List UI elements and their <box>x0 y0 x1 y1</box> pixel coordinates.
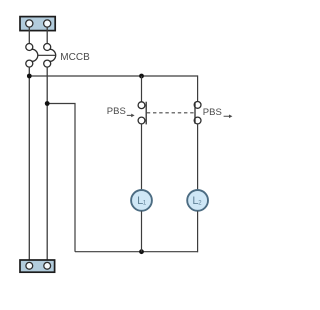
svg-text:PBS: PBS <box>203 107 222 118</box>
label PBS1 arrow <box>127 114 135 118</box>
mechanical interlock dashed link <box>147 112 195 114</box>
wire lamp L1 to bottom rail <box>141 211 143 251</box>
lamp L2 <box>187 190 208 211</box>
wire PBS1 to lamp L1 <box>141 124 143 189</box>
wire pole1 down to bottom block <box>28 67 30 262</box>
breaker MCCB pole1 arc blade <box>32 49 38 61</box>
wire TB1-a to MCCB pole1 <box>28 27 30 43</box>
junction top rail / branch L1 <box>139 74 144 79</box>
junction pole2 / return rail <box>45 101 50 106</box>
breaker MCCB pole1 bottom contact <box>26 60 33 67</box>
breaker MCCB pole2 top contact <box>44 44 51 51</box>
wire lamp L2 to bottom rail corner <box>197 211 199 252</box>
terminal TB1-a <box>26 20 33 27</box>
breaker MCCB pole1 top contact <box>26 44 33 51</box>
svg-text:PBS: PBS <box>107 106 126 117</box>
wire pole2 down to bottom block <box>46 67 48 262</box>
pushbutton PBS1 blade <box>145 102 147 125</box>
junction pole1 / top rail <box>27 74 32 79</box>
terminal block TB2 (bottom load block) <box>20 260 55 272</box>
wire bottom rail <box>75 251 198 253</box>
svg-text:MCCB: MCCB <box>60 52 90 63</box>
breaker MCCB pole2 bottom contact <box>44 60 51 67</box>
terminal TB2-b <box>44 262 51 269</box>
pushbutton PBS2 bottom contact <box>194 117 201 124</box>
wire branch1 rail to PBS1 <box>141 76 143 102</box>
terminal TB2-a <box>26 262 33 269</box>
breaker MCCB mechanical tie <box>38 54 56 56</box>
wire TB1-b to MCCB pole2 <box>46 27 48 43</box>
lamp L1 <box>131 190 152 211</box>
wire branch2 corner drop to PBS2 <box>197 75 199 101</box>
pushbutton PBS1 top contact <box>138 102 145 109</box>
breaker MCCB pole2 arc blade <box>50 49 56 61</box>
wire return rail (pole2 to mid drop) <box>47 104 75 252</box>
terminal block TB1 (top source block) <box>20 17 55 31</box>
pushbutton PBS2 blade <box>194 102 196 124</box>
terminal TB1-b <box>44 20 51 27</box>
junction bottom rail / lamp L1 <box>139 249 144 254</box>
label PBS2 arrow <box>224 115 233 119</box>
wire top rail (line side) <box>29 75 197 77</box>
wire PBS2 to lamp L2 <box>197 124 199 189</box>
pushbutton PBS2 top contact <box>194 102 201 109</box>
pushbutton PBS1 bottom contact <box>138 117 145 124</box>
